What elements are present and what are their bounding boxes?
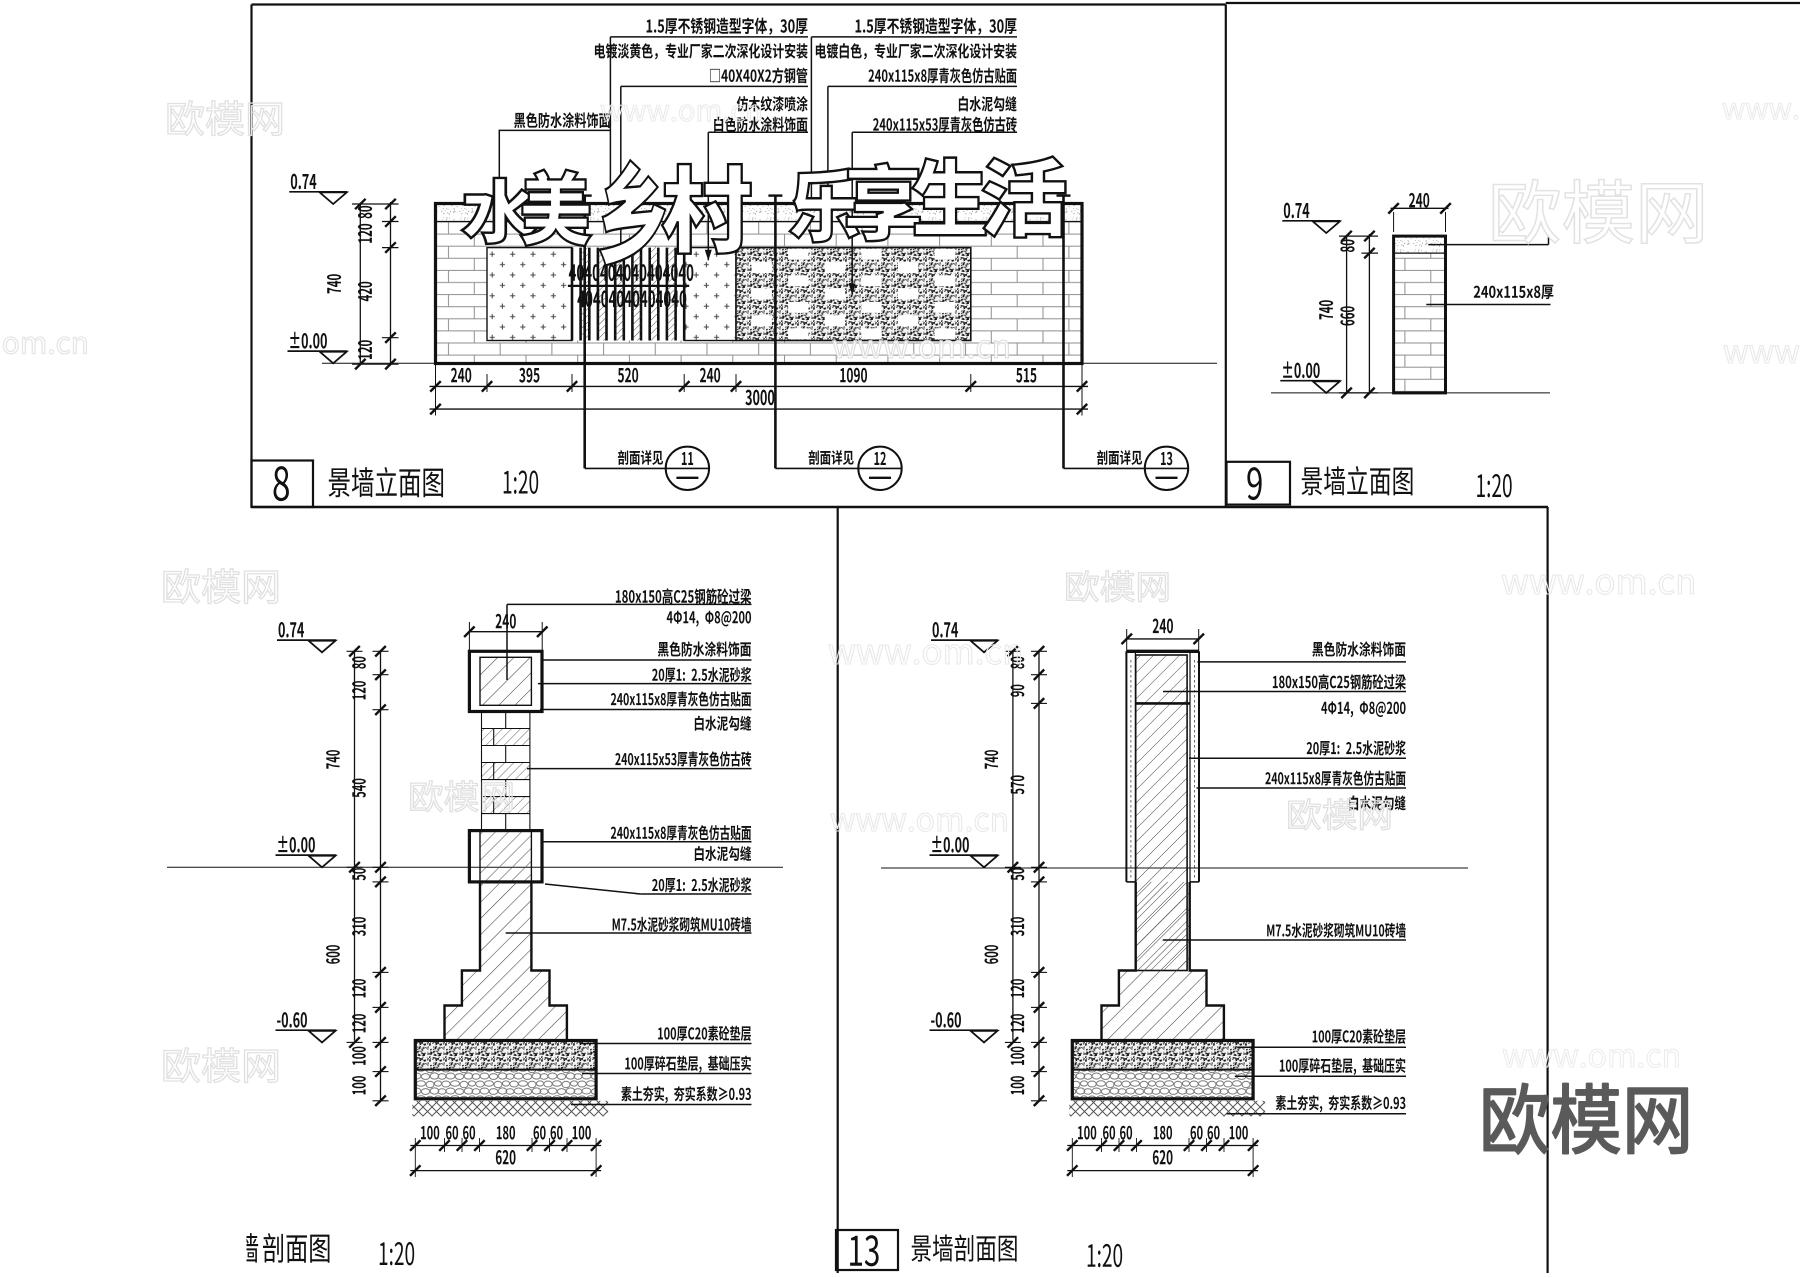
label block right line2 电镀白色 [816,43,1017,59]
S11 ground tile box [480,831,531,882]
S13 top 240 dim [1127,638,1199,640]
S11 label 20厚水泥砂浆 lower [652,877,751,892]
vertical dims panel 9 [1346,236,1348,393]
watermark 欧模网 top-left [168,101,282,136]
S13 label 黑色防水涂料饰面 [1312,641,1405,656]
S11 label 4Φ14 Φ8@200 [667,611,751,627]
S11 gravel bedding layer [415,1070,596,1099]
plus-pattern panel right [684,248,736,341]
plus-pattern panel left [487,248,572,341]
S11 top 240 dim [469,631,542,633]
vertical dims panel 8 [359,204,361,364]
S13 tile face right [1198,651,1200,882]
watermark 欧模网 big dark bottom-right [1484,1084,1687,1154]
S11 brick courses 240x115x53 [482,711,530,713]
S11 level ±0.00 [278,836,315,853]
label block right line5 240x115x53厚青灰色仿古砖 [873,116,1017,132]
panel 9 dim 240 [1391,207,1449,209]
S11 C20 bedding layer [415,1041,596,1070]
title scale 1:20 (13) [1088,1244,1122,1267]
ground line panel 8 [322,362,1217,364]
S13 tile adhesive dashed lines [1131,660,1195,878]
S13 wall top cap [1126,650,1199,653]
panel 13 right border [1546,507,1548,1273]
panel 9 top border [1226,2,1800,4]
label block center line5 白色防水涂料饰面 [714,116,807,132]
S13 label 100厚碎石垫层基础压实 [1280,1058,1406,1075]
S11 label 180x150高C25钢筋砼过梁 [616,588,751,604]
wall outline [436,204,1083,364]
title 景墙立面图 (9) [1302,466,1413,495]
panel 9 coping leader [1428,244,1548,246]
S13 level -0.60 [931,1012,961,1028]
S11 label 100厚碎石垫层基础压实 [625,1056,751,1073]
S13 footing width dims 100/60/60/180/60/60/100 and 620 [1067,1145,1258,1147]
S11 footing width dims 100/60/60/180/60/60/100 and 620 [410,1145,601,1147]
watermark 欧模网 mid-right [1067,571,1168,602]
S11 title fragment 墙剖面图 [237,1233,258,1263]
S13 level 0.74 [933,622,958,638]
watermark www.om.cn top-center [601,105,761,122]
steel tube screen panel [572,248,684,341]
S13 ground line [881,867,1468,869]
section cut line 13 [1062,195,1065,468]
watermark 欧模网 S13 labels [1289,799,1390,830]
watermark www.om.cn mid panel8 [833,340,1009,358]
level mark 0.74 panel9 [1284,203,1309,219]
title scale 1:20 (8) [504,471,538,494]
watermark www.om.cn mid-far-right [1502,575,1694,595]
label 剖面详见 for 11 [618,450,663,465]
label 剖面详见 for 13 [1097,450,1142,465]
S13 bedding outline [1072,1041,1253,1099]
title box 13 [836,1230,898,1270]
S13 label 20厚1:2.5水泥砂浆 [1307,740,1406,755]
label block center line4 仿木纹漆喷涂 [737,96,808,112]
dimension row 3000 [430,408,1089,410]
section cut line 12 [774,195,777,468]
label block right line1 1.5厚不锈钢造型字体30厚 [856,17,1017,34]
tube spacing divider line [568,285,689,287]
label block center line2 电镀淡黄色 [595,43,808,59]
S11 label 240x115x8厚青灰色仿古贴面 [611,691,751,706]
watermark www.om.cn S13 left [831,813,1007,831]
watermark www.om.cn right-edge mid [1724,345,1800,363]
watermark www.om.cn panel8 bottom [829,645,1021,665]
ground line panel 9 [1271,392,1550,394]
S11 foundation brick footing [445,882,567,1041]
label 剖面详见 for 12 [809,450,854,465]
S13 gravel bedding layer [1072,1070,1253,1099]
S11 label M7.5水泥砂浆砌筑MU10砖墙 [613,917,752,932]
level mark 0.74 panel8 [291,174,316,190]
panel 9 label 240x115x8 (clipped) [1474,285,1554,300]
level mark ±0.00 panel8 [290,332,327,349]
perforated brick screen panel [736,248,971,341]
S13 compacted soil hatch [1069,1101,1265,1117]
tube spacing dim text 40404040 row1 [569,264,694,281]
label 黑色防水涂料饰面 elev [514,112,610,128]
wall coping band [436,204,1083,222]
S11 ground line [167,866,783,868]
S13 label 100厚C20素砼垫层 [1313,1029,1406,1044]
S11 label 240x115x8厚青灰色仿古贴面 lower [611,825,751,840]
S11 section vertical dims [354,651,356,1040]
watermark www.om.cn bottom-right faint [1503,1049,1679,1067]
calligraphy title 水美乡村 乐享生活 (outlined) [462,178,537,244]
panel 9 end-wall outline [1394,236,1446,393]
S11 label 素土夯实 [621,1086,751,1103]
watermark www.om.cn top-right [1723,103,1800,120]
S11 bedding outline [415,1041,596,1099]
S13 label 4Φ14 Φ8@200 [1321,701,1405,717]
watermark 欧模网 upper-right large [1493,179,1702,243]
S11 level 0.74 [279,622,304,638]
S13 label 180x150高C25钢筋砼过梁 [1273,674,1406,690]
S13 foundation brick footing [1102,882,1224,1041]
watermark 欧模网 bottom-left [164,1048,278,1083]
S13 label 白水泥勾缝 [1349,795,1405,810]
S13 label M7.5水泥砂浆砌筑MU10砖墙 [1267,923,1406,938]
S13 beam bottom line [1136,702,1190,705]
S11 label 100厚C20素砼垫层 [658,1026,751,1041]
S13 C20 bedding layer [1072,1041,1253,1070]
watermark 欧模网 S11 courses [411,781,512,812]
title box 8 [252,461,314,508]
S11 label 黑色防水涂料饰面 [658,641,751,656]
section cut line 11 [583,195,586,468]
S13 label 240x115x8厚青灰色仿古贴面 [1265,770,1405,785]
level mark ±0.00 panel9 [1283,361,1320,378]
tube spacing dim text 40404040 row2 [577,290,686,307]
label block right line3 240x115x8厚青灰色仿古贴面 [868,68,1016,84]
bottom panel divider [837,507,839,1273]
title scale 1:20 (9) [1477,474,1511,497]
S11 label 20厚1:2.5水泥砂浆 [652,667,751,682]
watermark om.cn left-edge [0,337,86,354]
dimension row 240/395/520/240/1090/515 [430,385,1089,387]
label block center line3 方钢管 [710,68,807,84]
S11 label 240x115x53厚青灰色仿古砖 [615,751,751,766]
wall brick field [436,222,1083,364]
title 景墙剖面图 (13) [911,1234,1016,1261]
S13 tile face left [1125,651,1127,882]
panel 8 border frame [252,3,1226,5]
panel 9 end-wall brick [1394,253,1446,393]
S13 wall core hatched [1136,655,1187,971]
label block center line1 1.5厚不锈钢造型字体30厚 [647,17,808,34]
S11 label 白水泥勾缝 lower [695,846,751,861]
S13 section vertical dims [1012,651,1014,1040]
title 景墙立面图 (8) [329,467,444,497]
label block right line4 白水泥勾缝 [959,96,1017,111]
S11 lintel box C25 beam [469,651,542,711]
title box 9 [1227,462,1291,505]
watermark 欧模网 mid-left [164,569,278,604]
S11 compacted soil hatch [412,1101,608,1117]
S11 label 白水泥勾缝 [695,716,751,731]
S13 label 素土夯实 [1276,1095,1406,1112]
S13 level ±0.00 [932,836,969,853]
S11 level -0.60 [277,1012,307,1028]
